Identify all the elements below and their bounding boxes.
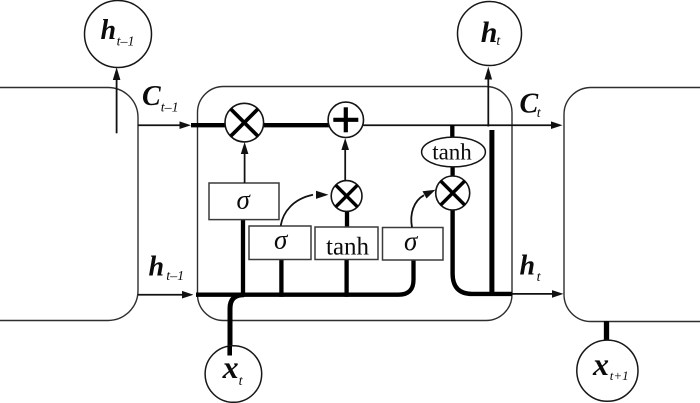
gate: plus (add) on C line: [328, 102, 363, 137]
main LSTM cell body: [198, 87, 513, 321]
gate: multiply1 (forget) on C line: [225, 103, 264, 142]
svg-text:σ: σ: [274, 225, 289, 255]
wire: thin cell-state line after plus, out to C_t arrow: [363, 121, 562, 129]
svg-text:h: h: [149, 252, 165, 283]
label C_{t-1}: [142, 81, 179, 116]
wire: h_{t-1} arrow into main cell: [138, 291, 194, 299]
wire: thick stub C line down to tanh ellipse: [450, 125, 454, 138]
node x_t (input circle): [205, 346, 262, 403]
left cell (previous LSTM block): [0, 88, 138, 321]
wire: arrow up from previous cell to h_{t-1}: [113, 67, 121, 133]
node h_t (top output circle): [458, 2, 522, 66]
gate: multiply3 (output): [436, 176, 470, 210]
wire: C_{t-1} arrow into main cell: [138, 121, 191, 129]
svg-text:t–1: t–1: [117, 34, 135, 49]
svg-text:σ: σ: [404, 226, 419, 256]
curved arrow sigma3 to multiply3: [411, 190, 435, 228]
wire: thick stub from next cell down to x_{t+1}: [604, 321, 609, 343]
wire: thick cell-state line C (between forget-gate mult and plus): [263, 123, 330, 127]
svg-text:t–1: t–1: [166, 269, 184, 284]
node h_{t-1} (top output circle of previous cell): [85, 1, 152, 68]
svg-text:h: h: [520, 251, 536, 282]
wire: thick output of multiply3 down and right to cell edge: [453, 210, 512, 294]
wire: thick branch from h line up to sigma1 (forget gate): [241, 220, 245, 297]
sigma box 1 (forget gate): [209, 183, 279, 220]
sigma box 3 (output gate): [383, 226, 444, 260]
wire: thick h line inside cell, curving up into output sigma box: [196, 259, 414, 295]
wire: thick cell-state line C (left segment): [191, 123, 226, 127]
svg-text:t+1: t+1: [610, 368, 629, 383]
svg-text:h: h: [101, 15, 117, 46]
wire: thin h_t arrow up to h_t circle: [485, 67, 493, 127]
wire: thick vertical h_t line rising beside cell edge: [489, 130, 494, 294]
wire: x_t stub entering circle: [227, 346, 232, 356]
wire: thick stub multiply2 down to tanh box: [345, 211, 349, 229]
svg-text:h: h: [481, 16, 498, 49]
arrow multiply2 up to plus: [341, 138, 349, 181]
label h_t (output): [520, 251, 542, 285]
wire: thick branch from h line up to sigma2 (input gate): [279, 257, 283, 297]
label C_t: [520, 88, 542, 121]
right cell (next LSTM block): [564, 88, 700, 322]
sigma box 2 (input gate): [249, 225, 311, 260]
gate: multiply2 (input): [331, 181, 362, 212]
svg-text:σ: σ: [237, 185, 252, 215]
curved arrow sigma2 to multiply2: [281, 191, 329, 226]
tanh ellipse: [422, 137, 486, 167]
wire: thin h_t output arrow to next cell: [512, 290, 564, 298]
wire: thick input from x_t curving onto h line: [230, 295, 244, 356]
node x_{t+1} (next input circle): [577, 340, 638, 401]
svg-text:C: C: [142, 81, 161, 112]
svg-text:tanh: tanh: [326, 234, 370, 261]
label h_{t-1}: [149, 252, 185, 285]
wire: thick branch from h line up to tanh box: [344, 258, 348, 297]
svg-text:t–1: t–1: [161, 101, 179, 116]
tanh box (candidate): [315, 227, 378, 261]
svg-text:tanh: tanh: [432, 140, 472, 165]
svg-text:C: C: [520, 88, 539, 119]
arrow sigma1 to multiply1: [241, 142, 249, 183]
svg-text:x: x: [592, 346, 609, 382]
wire: thick stub tanh ellipse down to multiply3: [450, 167, 454, 178]
